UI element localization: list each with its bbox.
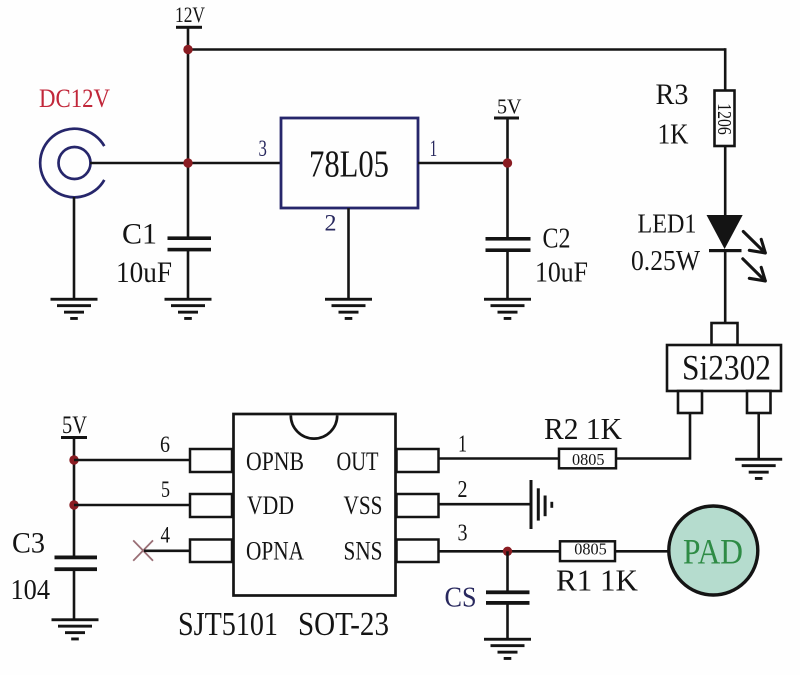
no-connect X pin 4 xyxy=(133,540,153,560)
svg-text:1: 1 xyxy=(458,432,467,458)
svg-text:2: 2 xyxy=(458,477,468,503)
wire R3 to LED xyxy=(724,146,727,216)
svg-text:6: 6 xyxy=(160,432,170,457)
wire C1 to ground xyxy=(187,251,190,299)
svg-text:4: 4 xyxy=(161,523,171,548)
svg-text:C2: C2 xyxy=(543,223,571,255)
wire to pin 5 xyxy=(74,504,190,507)
svg-text:LED1: LED1 xyxy=(638,209,697,239)
IC pin box 5 xyxy=(190,494,232,517)
ground VSS rotated xyxy=(530,480,554,529)
pad P1 circle xyxy=(669,506,758,595)
svg-text:C1: C1 xyxy=(122,218,157,251)
svg-text:104: 104 xyxy=(11,575,51,606)
svg-text:5V: 5V xyxy=(62,412,87,439)
svg-text:1206: 1206 xyxy=(713,103,735,135)
junction dot CS node xyxy=(503,547,512,556)
svg-text:C3: C3 xyxy=(12,527,45,560)
wire to pin 6 xyxy=(74,459,190,462)
svg-text:12V: 12V xyxy=(175,2,205,27)
connector J1 inner circle xyxy=(59,147,91,179)
wire top to R3 xyxy=(724,48,727,91)
ground C1 xyxy=(165,298,212,320)
svg-text:3: 3 xyxy=(259,136,267,161)
svg-text:2: 2 xyxy=(325,211,337,236)
capacitor C2 xyxy=(486,237,531,252)
svg-text:CS: CS xyxy=(445,583,477,614)
regulator U2 78L05 body xyxy=(281,118,418,208)
ground Q1 source xyxy=(735,458,782,480)
svg-text:OPNB: OPNB xyxy=(246,446,304,476)
ground C2 xyxy=(484,298,531,320)
svg-text:VSS: VSS xyxy=(344,490,383,520)
wire CS node down xyxy=(506,551,509,591)
svg-text:OUT: OUT xyxy=(337,446,379,476)
svg-text:10uF: 10uF xyxy=(535,257,588,289)
svg-text:R2 1K: R2 1K xyxy=(544,411,623,446)
junction dot 5V node xyxy=(503,158,512,167)
svg-text:10uF: 10uF xyxy=(116,256,172,289)
wire connector to node xyxy=(90,162,281,165)
IC pin box 4 xyxy=(190,540,232,563)
LED arrow 1 xyxy=(743,232,765,254)
svg-text:0805: 0805 xyxy=(572,450,605,469)
wire 12V rail vertical xyxy=(187,27,190,238)
svg-text:PAD: PAD xyxy=(683,532,743,572)
wire LED to Si2302 xyxy=(724,251,727,324)
junction dot input node xyxy=(183,158,192,167)
svg-text:SNS: SNS xyxy=(344,535,383,565)
wire top horizontal 12V to R3 xyxy=(188,48,725,51)
diode LED1 triangle xyxy=(707,215,743,249)
LED arrow 2 xyxy=(743,259,766,281)
svg-text:0805: 0805 xyxy=(574,540,607,559)
IC pin box 2 xyxy=(397,494,439,517)
svg-text:R3: R3 xyxy=(656,78,689,111)
svg-text:5V: 5V xyxy=(497,95,522,119)
power bar 5V left xyxy=(61,436,87,439)
wire CS cap to ground xyxy=(506,604,509,639)
wire connector stub down xyxy=(73,197,76,299)
resistor R1 body xyxy=(560,541,615,561)
IC pin box 1 xyxy=(397,449,439,472)
diode LED1 cathode bar xyxy=(709,249,742,252)
svg-text:1K: 1K xyxy=(658,119,689,151)
connector J1 outer arc xyxy=(40,129,104,198)
ground 78L05 pin2 xyxy=(325,298,372,320)
wire IC pin2 to signal ground xyxy=(439,503,531,506)
svg-text:5: 5 xyxy=(161,477,170,502)
wire C2 to ground xyxy=(506,252,509,300)
svg-text:VDD: VDD xyxy=(247,490,294,520)
transistor Q1 left pin xyxy=(678,391,702,413)
junction dot pin5 node xyxy=(69,500,78,509)
junction dot pin6 node xyxy=(69,455,78,464)
svg-text:OPNA: OPNA xyxy=(246,535,304,565)
wire R1 to PAD xyxy=(615,550,669,553)
resistor R2 body xyxy=(559,449,616,469)
capacitor CS xyxy=(486,590,530,604)
ground C3 xyxy=(52,618,99,640)
wire IC pin1 to R2 xyxy=(439,457,560,460)
junction dot top xyxy=(183,45,192,54)
wire C3 to ground xyxy=(73,571,76,620)
IC pin box 3 xyxy=(397,540,439,563)
svg-text:Si2302: Si2302 xyxy=(682,348,771,388)
wire 78L05 pin1 to 5V node xyxy=(418,162,508,165)
power bar 5V xyxy=(494,117,519,120)
svg-text:DC12V: DC12V xyxy=(39,84,110,113)
wire Q1 gate down-left to R2 xyxy=(616,413,690,459)
transistor Q1 right pin xyxy=(747,391,771,413)
wire Q1 source to ground xyxy=(757,413,760,459)
capacitor C3 xyxy=(55,556,98,572)
ground CS xyxy=(484,638,531,660)
IC U1 notch xyxy=(291,415,337,438)
wire 78L05 pin2 down xyxy=(347,208,350,299)
resistor R3 body xyxy=(715,91,735,147)
svg-text:R1 1K: R1 1K xyxy=(556,563,639,598)
svg-text:SJT5101: SJT5101 xyxy=(178,606,278,643)
transistor Q1 Si2302 top pin xyxy=(712,323,738,345)
capacitor C1 xyxy=(168,236,212,251)
wire 5V rail to C2 xyxy=(506,118,509,238)
ground connector xyxy=(51,298,98,320)
svg-text:78L05: 78L05 xyxy=(309,143,389,185)
IC pin box 6 xyxy=(190,449,232,472)
power bar 12V xyxy=(176,26,202,29)
svg-text:0.25W: 0.25W xyxy=(631,246,701,277)
svg-text:3: 3 xyxy=(458,521,468,547)
wire X to pin 4 xyxy=(144,549,190,552)
svg-text:SOT-23: SOT-23 xyxy=(298,606,389,643)
svg-text:1: 1 xyxy=(430,136,438,161)
transistor Q1 Si2302 body xyxy=(667,345,781,391)
wire IC pin3 to R1 xyxy=(439,550,561,553)
wire 5V left rail down xyxy=(73,438,76,557)
IC U1 SJT5101 body xyxy=(234,414,396,596)
